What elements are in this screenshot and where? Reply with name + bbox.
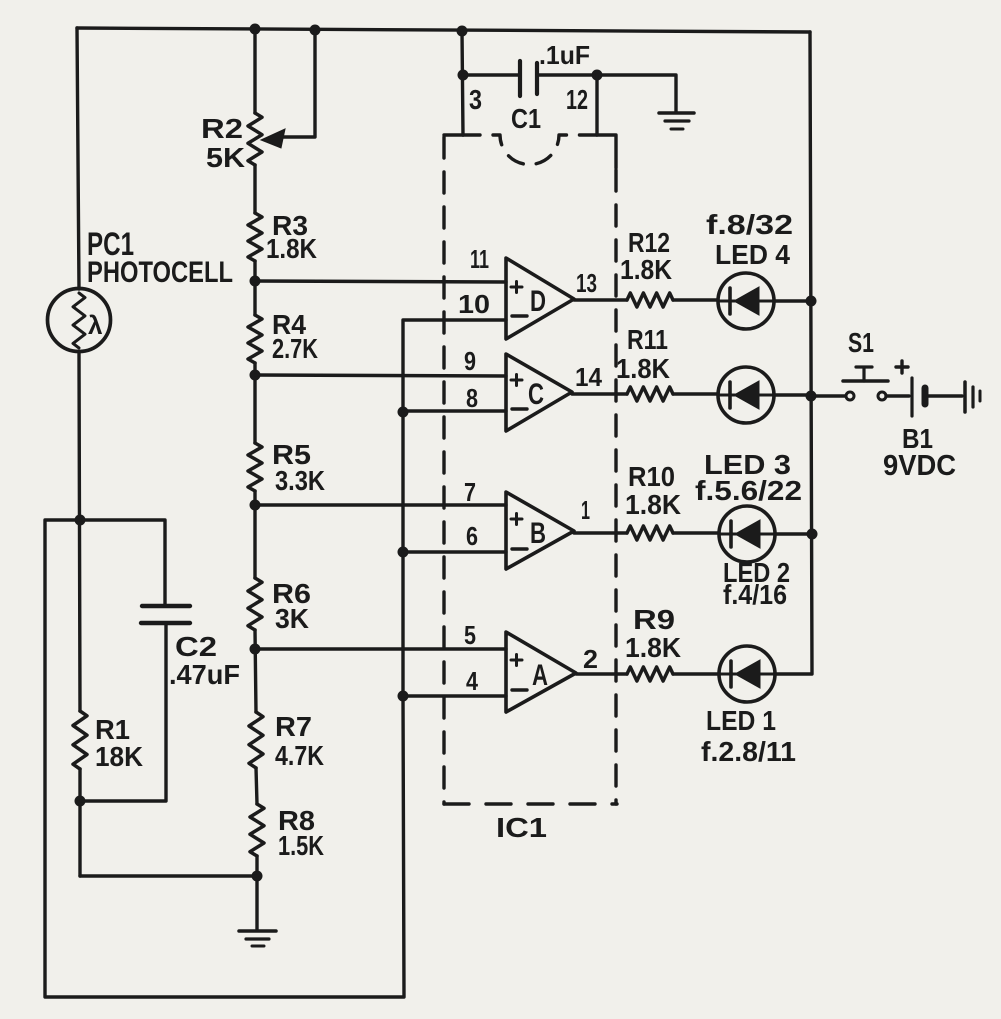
svg-text:2.7K: 2.7K bbox=[272, 333, 318, 364]
wire R7 to R8 bbox=[256, 768, 257, 804]
wire op-amp output to R9 bbox=[576, 672, 627, 675]
resistor R12 1.8K bbox=[627, 293, 673, 307]
switch S1 pushbutton bbox=[846, 392, 854, 400]
svg-text:1: 1 bbox=[581, 495, 590, 525]
wiper arrow of R2 bbox=[283, 30, 315, 137]
svg-text:LED 4: LED 4 bbox=[715, 239, 790, 270]
svg-text:3.3K: 3.3K bbox=[275, 465, 325, 496]
IC1 dashed outline bottom edge bbox=[444, 802, 617, 805]
wire divider top segment bbox=[253, 29, 256, 113]
wire bus to pin 6 bbox=[403, 550, 506, 553]
IC1 dashed outline right edge bbox=[597, 135, 616, 168]
resistor R7 4.7K bbox=[249, 712, 263, 768]
svg-text:R11: R11 bbox=[627, 324, 668, 355]
svg-text:D: D bbox=[530, 285, 546, 318]
svg-text:C: C bbox=[528, 378, 544, 411]
svg-text:4.7K: 4.7K bbox=[275, 740, 324, 771]
node bus pin 8 junction bbox=[398, 407, 409, 418]
wire right vertical supply rail down to LED1 bbox=[774, 32, 812, 674]
IC1 dashed outline left edge bbox=[444, 133, 463, 136]
svg-text:9: 9 bbox=[464, 346, 476, 376]
svg-text:.1uF: .1uF bbox=[539, 40, 590, 70]
resistor R1 18K bbox=[73, 711, 87, 769]
node R1 bottom / C2 bottom junction bbox=[75, 796, 86, 807]
node R4-R5 junction bbox=[250, 370, 261, 381]
wire node to pin 5 bbox=[255, 647, 506, 650]
wire R9 to LED bbox=[673, 672, 718, 675]
wire PC1 bottom to R1 bbox=[79, 352, 80, 711]
wire node to pin 11 bbox=[255, 281, 506, 282]
svg-text:18K: 18K bbox=[95, 741, 143, 772]
wire node to pin 7 bbox=[255, 503, 506, 506]
resistor R6 3K bbox=[248, 578, 262, 630]
wire C2 bottom connection bbox=[80, 625, 166, 801]
wire C1 right to ground bbox=[537, 75, 676, 112]
svg-text:R7: R7 bbox=[275, 711, 312, 742]
svg-text:.47uF: .47uF bbox=[169, 659, 240, 690]
node top-rail junction to R2 wiper return bbox=[310, 25, 321, 36]
wire node to pin 9 bbox=[255, 375, 506, 376]
svg-text:f.2.8/11: f.2.8/11 bbox=[701, 736, 796, 767]
wire R6 to R7 bbox=[255, 630, 256, 712]
svg-text:LED 1: LED 1 bbox=[706, 705, 776, 736]
svg-text:1.8K: 1.8K bbox=[616, 353, 670, 384]
node bus pin 4 junction bbox=[398, 691, 409, 702]
wire R1 to bottom node bbox=[78, 769, 81, 876]
node PC1 / R1 / C2 top junction bbox=[75, 515, 86, 526]
ground battery side bbox=[963, 382, 967, 412]
resistor R8 1.5K bbox=[250, 804, 264, 856]
wire rail to S1 bbox=[811, 394, 845, 397]
wire op-amp output to R10 bbox=[574, 531, 627, 534]
svg-text:R2: R2 bbox=[201, 113, 243, 144]
svg-text:S1: S1 bbox=[848, 327, 874, 358]
op-amp A bbox=[506, 632, 576, 712]
svg-text:f.5.6/22: f.5.6/22 bbox=[695, 475, 802, 506]
LED 4 bbox=[718, 273, 774, 329]
wire R11 to LED bbox=[673, 392, 718, 395]
wire pin 3 stub bbox=[462, 31, 463, 135]
svg-text:9VDC: 9VDC bbox=[883, 450, 956, 482]
wire R3 to node 11 bbox=[253, 261, 256, 315]
resistor R3 1.8K bbox=[248, 213, 262, 261]
svg-text:f.4/16: f.4/16 bbox=[723, 579, 787, 610]
wire LED4 to rail bbox=[774, 299, 811, 302]
wire bus to pin 8 bbox=[403, 409, 506, 412]
wire battery to ground bbox=[928, 394, 962, 397]
svg-text:1.8K: 1.8K bbox=[620, 254, 672, 285]
svg-text:8: 8 bbox=[466, 383, 478, 413]
svg-text:11: 11 bbox=[470, 244, 489, 274]
svg-text:1.8K: 1.8K bbox=[266, 233, 317, 264]
svg-text:10: 10 bbox=[458, 289, 490, 319]
svg-text:R9: R9 bbox=[633, 604, 675, 635]
wire pin 12 stub bbox=[595, 75, 598, 135]
svg-text:4: 4 bbox=[466, 666, 478, 696]
svg-text:1.8K: 1.8K bbox=[625, 632, 681, 663]
svg-text:2: 2 bbox=[583, 644, 598, 674]
svg-text:3K: 3K bbox=[275, 603, 309, 634]
resistor R11 1.8K bbox=[627, 387, 673, 401]
wire op-amp output to R12 bbox=[574, 298, 627, 301]
LED 3 bbox=[718, 367, 774, 423]
node bus pin 6 junction bbox=[398, 547, 409, 558]
svg-text:B: B bbox=[530, 517, 546, 550]
wire inverting input bus bbox=[403, 320, 506, 700]
svg-text:5K: 5K bbox=[206, 142, 245, 173]
wire C2 top connection bbox=[80, 520, 165, 604]
node R6-R7 junction bbox=[250, 644, 261, 655]
potentiometer R2 5K bbox=[248, 113, 262, 165]
wire R8 to ground node bbox=[255, 856, 258, 929]
wire op-amp output to R11 bbox=[572, 392, 627, 395]
svg-text:PHOTOCELL: PHOTOCELL bbox=[87, 256, 233, 289]
battery B1 9VDC bbox=[910, 378, 913, 416]
svg-text:1.8K: 1.8K bbox=[625, 489, 681, 520]
svg-text:13: 13 bbox=[576, 268, 597, 298]
LED 2 bbox=[719, 506, 775, 562]
LED 1 bbox=[719, 646, 775, 702]
op-amp B bbox=[506, 492, 574, 569]
wire outer loop to inverting bus bbox=[45, 520, 404, 997]
node LED2 rail junction bbox=[807, 529, 818, 540]
resistor R9 1.8K bbox=[627, 667, 673, 681]
svg-text:IC1: IC1 bbox=[496, 812, 547, 843]
resistor R10 1.8K bbox=[627, 526, 673, 540]
node C1 right junction bbox=[592, 70, 603, 81]
node top-rail junction to C1/pin3 bbox=[457, 26, 468, 37]
node R8 bottom junction bbox=[252, 871, 263, 882]
op-amp C bbox=[506, 354, 572, 431]
svg-text:3: 3 bbox=[469, 84, 482, 115]
wire C1 left bbox=[463, 73, 519, 76]
svg-text:12: 12 bbox=[566, 84, 588, 115]
wire S1 to battery B1 bbox=[886, 394, 909, 397]
wire R5 to R6 bbox=[253, 491, 256, 578]
svg-text:λ: λ bbox=[88, 310, 103, 340]
wire R1 bottom to R8 bottom bbox=[80, 874, 257, 877]
wire R4 to R5 bbox=[253, 363, 256, 443]
ground C1 bbox=[659, 111, 694, 115]
ground divider bottom bbox=[239, 929, 276, 933]
svg-text:14: 14 bbox=[575, 362, 603, 392]
svg-text:C2: C2 bbox=[175, 631, 217, 662]
svg-text:5: 5 bbox=[464, 620, 476, 650]
node LED4 rail junction bbox=[806, 296, 817, 307]
svg-text:6: 6 bbox=[466, 521, 478, 551]
wire R2 to R3 bbox=[253, 165, 256, 213]
wire R10 to LED bbox=[673, 531, 718, 534]
wire R12 to LED bbox=[673, 298, 718, 301]
capacitor C2 .47uF bbox=[142, 604, 190, 608]
IC1 dashed top notch bbox=[463, 135, 597, 165]
node R5-R6 junction bbox=[250, 500, 261, 511]
photocell PC1 bbox=[48, 289, 111, 352]
node top-rail junction to divider bbox=[250, 24, 261, 35]
resistor R4 2.7K bbox=[248, 315, 262, 363]
svg-text:1.5K: 1.5K bbox=[278, 830, 324, 861]
node R3-R4 junction bbox=[250, 276, 261, 287]
svg-text:7: 7 bbox=[464, 477, 476, 507]
node C1 left junction bbox=[458, 70, 469, 81]
op-amp D bbox=[506, 258, 574, 339]
svg-text:C1: C1 bbox=[511, 103, 541, 134]
resistor R5 3.3K bbox=[248, 443, 262, 491]
svg-text:f.8/32: f.8/32 bbox=[706, 209, 793, 240]
node LED3 rail junction bbox=[806, 391, 817, 402]
wire left vertical from top rail to PC1 bbox=[77, 28, 79, 289]
svg-text:A: A bbox=[532, 659, 548, 692]
wire LED2 to rail bbox=[775, 532, 812, 535]
wire bus to pin 4 bbox=[403, 694, 506, 697]
svg-text:R10: R10 bbox=[628, 461, 675, 492]
capacitor C1 .1uF bbox=[518, 61, 522, 96]
wire top supply rail bbox=[77, 28, 810, 32]
wire LED3 to rail bbox=[774, 393, 811, 396]
